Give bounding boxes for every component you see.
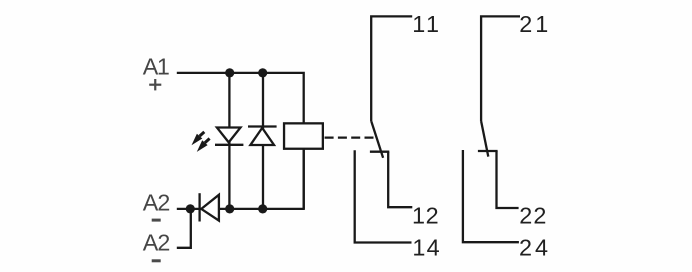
svg-text:11: 11 [412,11,441,37]
relay coil K1 [284,123,323,148]
freewheeling diode (vertical, cathode up) [248,127,277,146]
polarity plus sign [149,79,161,90]
wire terminal 21 [481,16,520,121]
polarity minus sign second [152,259,161,262]
svg-text:A1: A1 [143,53,169,79]
wire diode branch vertical [262,73,264,209]
svg-text:A2: A2 [143,189,170,215]
wire A1 horizontal to coil [177,73,304,124]
LED emission arrow 1 [192,132,205,145]
NC contact bar (12) [370,151,389,153]
wire LED branch vertical [228,73,230,209]
wire terminal 14 [355,150,412,242]
wire terminal 12 [388,152,412,208]
contact armature 21-22-24 [481,122,488,157]
node junction dot bottom diode branch [258,204,267,213]
node junction dot A2 join [186,204,195,213]
svg-text:14: 14 [412,234,440,260]
NC contact bar (22) [478,150,498,152]
node junction dot bottom LED branch [225,204,234,213]
wire terminal 11 [371,16,412,121]
node junction dot top diode branch [258,68,267,77]
svg-text:A2: A2 [143,230,170,256]
wire terminal 22 [497,151,519,208]
svg-text:21: 21 [519,11,551,37]
polarity minus sign first [152,219,161,222]
wire terminal 24 [463,150,519,242]
node junction dot top LED branch [225,68,234,77]
svg-text:22: 22 [519,202,547,228]
LED indicator diode [215,128,243,145]
svg-text:12: 12 [412,202,439,228]
svg-text:24: 24 [519,234,551,260]
wire A2 bottom bus [177,149,304,209]
contact armature 11-12-14 [371,121,383,158]
reverse polarity protection diode (horizontal, cathode left) [200,193,219,221]
dashed actuation link coil to contact [325,136,374,138]
LED emission arrow 2 [197,139,210,152]
wire A2 second branch [177,209,191,248]
wire coil bottom drop [303,149,305,209]
